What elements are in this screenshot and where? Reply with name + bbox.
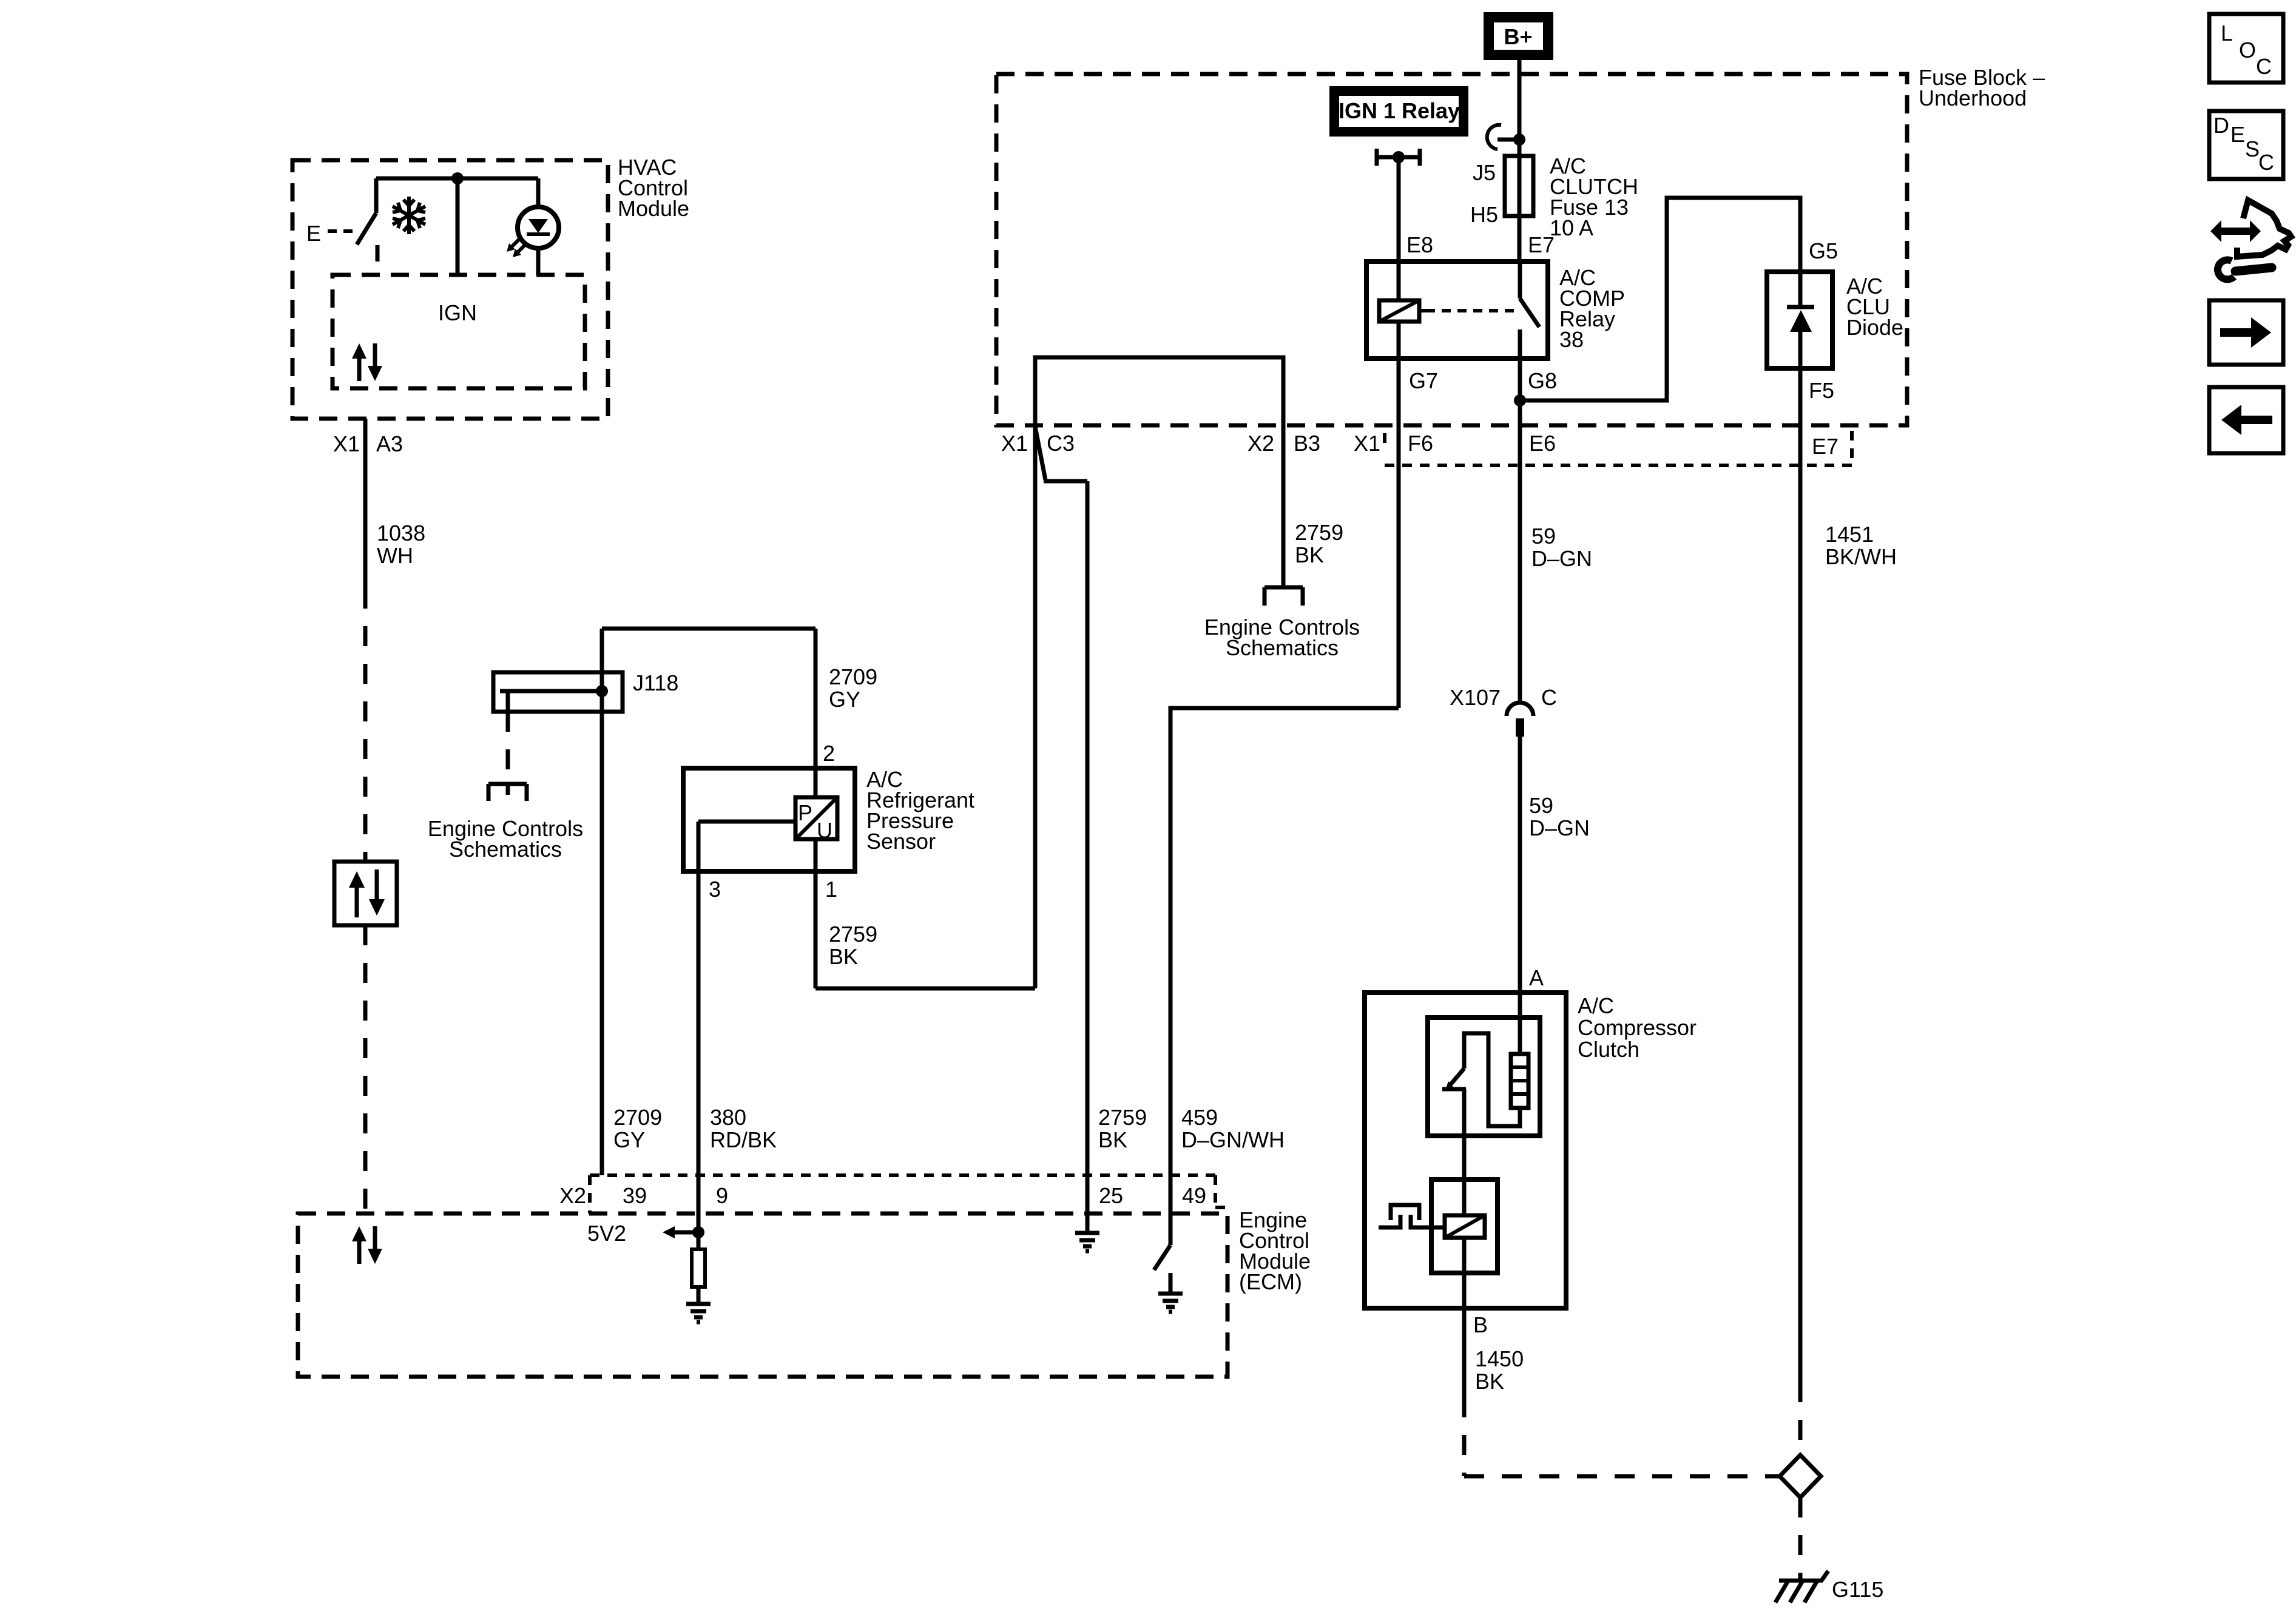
svg-text:E7: E7 — [1528, 232, 1555, 257]
svg-text:X1: X1 — [1001, 431, 1028, 456]
left arrow nav box — [2209, 387, 2283, 453]
wire to clutch coil — [1462, 1089, 1467, 1215]
svg-text:E7: E7 — [1812, 434, 1838, 459]
svg-text:U: U — [817, 818, 832, 843]
svg-text:D: D — [2213, 113, 2229, 138]
svg-text:BK/WH: BK/WH — [1825, 544, 1897, 569]
svg-text:2709: 2709 — [829, 664, 877, 689]
svg-text:10 A: 10 A — [1550, 215, 1593, 240]
svg-text:G7: G7 — [1409, 368, 1438, 393]
svg-text:C: C — [2256, 54, 2272, 79]
fuse 13 A/C CLUTCH — [1505, 156, 1533, 216]
svg-text:2: 2 — [823, 741, 835, 766]
svg-text:E6: E6 — [1529, 431, 1556, 456]
svg-text:J118: J118 — [633, 670, 678, 695]
right arrow nav box — [2209, 300, 2283, 365]
svg-text:Schematics: Schematics — [1226, 635, 1339, 660]
svg-text:D–GN/WH: D–GN/WH — [1181, 1127, 1285, 1152]
svg-text:H5: H5 — [1470, 202, 1498, 227]
svg-text:1451: 1451 — [1825, 522, 1874, 547]
IGN 1 relay feed bracket — [1375, 149, 1379, 166]
svg-text:X1: X1 — [1354, 431, 1380, 456]
wire switch to LED top bus — [376, 177, 538, 181]
wire diode F5 down to G115 — [1798, 368, 1803, 1382]
fuse block X1 connector sub-box — [1383, 433, 1386, 450]
IGN 1 Relay label box — [1329, 86, 1468, 137]
wire 2759 BK sensor 1 — [814, 839, 818, 988]
svg-text:2709: 2709 — [613, 1105, 662, 1130]
connector J5 half-moon — [1487, 125, 1501, 149]
splice connector J118 — [493, 672, 623, 712]
junction node on bus — [451, 172, 464, 184]
svg-text:X2: X2 — [1248, 431, 1274, 456]
DESC nav box — [2209, 111, 2283, 179]
svg-text:B3: B3 — [1294, 431, 1320, 456]
svg-text:GY: GY — [829, 687, 860, 712]
svg-text:F6: F6 — [1408, 431, 1433, 456]
serial data arrow box on wire — [334, 862, 397, 925]
wire C3 jog to ECM 25 — [1035, 427, 1045, 480]
C3-B3 bus inside fuse block — [1035, 357, 1283, 587]
svg-text:RD/BK: RD/BK — [710, 1127, 777, 1152]
serial data arrows in HVAC — [357, 357, 362, 381]
A/C refrigerant pressure sensor — [683, 768, 855, 871]
relay coil — [1379, 300, 1419, 322]
svg-text:380: 380 — [710, 1105, 746, 1130]
svg-text:X1: X1 — [333, 431, 360, 456]
svg-text:C: C — [1541, 685, 1557, 710]
svg-text:Underhood: Underhood — [1919, 86, 2027, 110]
svg-text:BK: BK — [1475, 1369, 1504, 1394]
fuse block underhood dashed box — [996, 74, 1907, 425]
serial data arrows in ECM — [357, 1240, 362, 1264]
relay actuation dashed link — [1426, 309, 1516, 312]
internal voltage arrow at pin 9 — [672, 1230, 698, 1235]
sensor internal wire pin 3 — [698, 820, 795, 824]
svg-text:2759: 2759 — [1295, 520, 1343, 545]
svg-text:E8: E8 — [1406, 232, 1433, 257]
svg-text:459: 459 — [1181, 1105, 1218, 1130]
svg-text:5V2: 5V2 — [587, 1221, 626, 1246]
LOC nav box — [2209, 14, 2283, 83]
svg-text:C3: C3 — [1047, 431, 1075, 456]
clutch coil — [1445, 1215, 1485, 1238]
HVAC inner connector dashed box — [333, 275, 585, 388]
svg-text:X107: X107 — [1450, 685, 1501, 710]
svg-text:E: E — [2230, 122, 2245, 147]
svg-text:3: 3 — [709, 877, 721, 902]
svg-text:59: 59 — [1529, 793, 1553, 818]
svg-text:BK: BK — [1295, 542, 1324, 567]
thermal protector inner box — [1428, 1018, 1540, 1136]
inline connector X107 pin C — [1507, 703, 1533, 716]
wrench icon — [2235, 268, 2272, 271]
svg-text:1038: 1038 — [377, 521, 425, 545]
svg-text:A/C: A/C — [1578, 993, 1614, 1018]
svg-text:B: B — [1473, 1312, 1488, 1337]
wire sensor 1 to fuse block C3 — [815, 987, 1035, 991]
wire 380 RD/BK sensor 3 to ECM 9 — [697, 822, 701, 1232]
P/U transducer symbol — [795, 797, 837, 839]
svg-text:E: E — [306, 221, 321, 246]
wire 2709 GY ECM 39 to J118 to sensor pin 2 — [600, 629, 604, 1175]
svg-text:WH: WH — [377, 543, 413, 568]
ground inside ECM pin 25 — [1075, 1233, 1099, 1251]
svg-text:59: 59 — [1531, 524, 1556, 549]
off-page bracket below J118 — [488, 782, 527, 786]
wire G8 loop to diode G5 — [1520, 198, 1800, 400]
svg-text:BK: BK — [1098, 1127, 1127, 1152]
svg-text:Compressor: Compressor — [1578, 1015, 1697, 1040]
svg-text:A: A — [1529, 965, 1544, 990]
svg-text:IGN: IGN — [438, 300, 477, 325]
svg-text:2759: 2759 — [829, 922, 877, 947]
svg-text:F5: F5 — [1809, 378, 1834, 403]
svg-text:49: 49 — [1182, 1183, 1206, 1208]
B+ power node — [1484, 12, 1553, 60]
ground G115 — [1775, 1571, 1828, 1602]
junction node at J5 — [1513, 133, 1525, 146]
svg-text:L: L — [2221, 21, 2233, 46]
svg-text:2759: 2759 — [1098, 1105, 1147, 1130]
svg-text:G115: G115 — [1832, 1577, 1883, 1602]
svg-text:Diode: Diode — [1846, 315, 1903, 340]
ground inside ECM pin 49 — [1158, 1294, 1183, 1312]
junction node G8 — [1514, 394, 1526, 407]
svg-text:1: 1 — [825, 877, 837, 902]
wire relay switch G8 to E6 — [1518, 359, 1522, 704]
svg-text:A3: A3 — [376, 431, 403, 456]
svg-text:J5: J5 — [1473, 160, 1496, 185]
svg-text:Sensor: Sensor — [866, 829, 936, 854]
ground inside ECM pin 9 — [686, 1304, 711, 1322]
svg-text:P: P — [798, 800, 812, 825]
svg-text:O: O — [2239, 38, 2256, 62]
clutch coil inner box — [1431, 1180, 1497, 1273]
A/C COMP Relay 38 — [1366, 262, 1548, 359]
splice diamond — [1780, 1455, 1821, 1497]
A/C indicator LED — [536, 178, 541, 207]
mechanical interlock symbol — [1391, 1205, 1419, 1220]
svg-text:IGN 1 Relay: IGN 1 Relay — [1339, 98, 1460, 123]
internal pull resistor — [692, 1249, 705, 1287]
wire coil to pin B — [1462, 1238, 1467, 1308]
svg-text:9: 9 — [716, 1183, 728, 1208]
hand double-arrow tool icon — [2210, 220, 2261, 242]
HVAC Control Module dashed box — [292, 160, 608, 419]
internal wiring to thermal switch — [1464, 1033, 1520, 1126]
svg-text:G5: G5 — [1809, 238, 1838, 263]
svg-text:D–GN: D–GN — [1529, 815, 1590, 840]
svg-text:1450: 1450 — [1475, 1346, 1524, 1371]
svg-text:X2: X2 — [559, 1183, 586, 1208]
relay switch — [1518, 262, 1522, 299]
svg-text:C: C — [2258, 150, 2274, 175]
snowflake A/C symbol — [393, 197, 425, 234]
svg-text:G8: G8 — [1528, 368, 1557, 393]
svg-text:B+: B+ — [1504, 24, 1532, 49]
svg-text:BK: BK — [829, 944, 858, 969]
A/C CLU diode — [1767, 272, 1832, 368]
ECM dashed box — [298, 1214, 1227, 1377]
svg-text:D–GN: D–GN — [1531, 546, 1592, 571]
wire 1450 BK — [1462, 1308, 1467, 1397]
wire relay coil G7 to F6 — [1397, 322, 1401, 708]
svg-text:25: 25 — [1099, 1183, 1123, 1208]
svg-text:39: 39 — [623, 1183, 647, 1208]
off-page bracket to engine controls — [1264, 586, 1303, 590]
svg-text:38: 38 — [1559, 327, 1584, 352]
wire IGN tap — [456, 178, 460, 275]
svg-text:Clutch: Clutch — [1578, 1037, 1639, 1062]
svg-text:Schematics: Schematics — [449, 837, 562, 862]
thermal fuse element — [1511, 1054, 1528, 1108]
wire 1038 WH from HVAC A3 — [363, 419, 368, 589]
thermal switch blade — [1450, 1068, 1464, 1085]
svg-text:GY: GY — [613, 1127, 645, 1152]
dashed drop to engine controls — [506, 712, 510, 783]
wire IGN1 relay to relay coil E8 — [1397, 157, 1401, 300]
wire 459 D-GN/WH F6 to ECM 49 — [1170, 708, 1399, 1175]
LED light arrows — [511, 239, 519, 248]
A/C request switch — [374, 178, 379, 213]
wire 59 D-GN X107 to compressor A — [1518, 737, 1522, 1054]
wire B+ to fuse — [1518, 60, 1522, 262]
svg-text:Module: Module — [618, 196, 689, 221]
node pin 9 junction — [692, 1226, 704, 1238]
svg-text:S: S — [2245, 137, 2260, 161]
wire 1451 dashed to ground — [1798, 1382, 1803, 1455]
ECM X2 connector strip — [590, 1173, 1215, 1177]
A/C compressor clutch box — [1365, 993, 1566, 1308]
low side driver switch at pin 49 — [1169, 1175, 1173, 1245]
svg-text:(ECM): (ECM) — [1239, 1269, 1302, 1294]
